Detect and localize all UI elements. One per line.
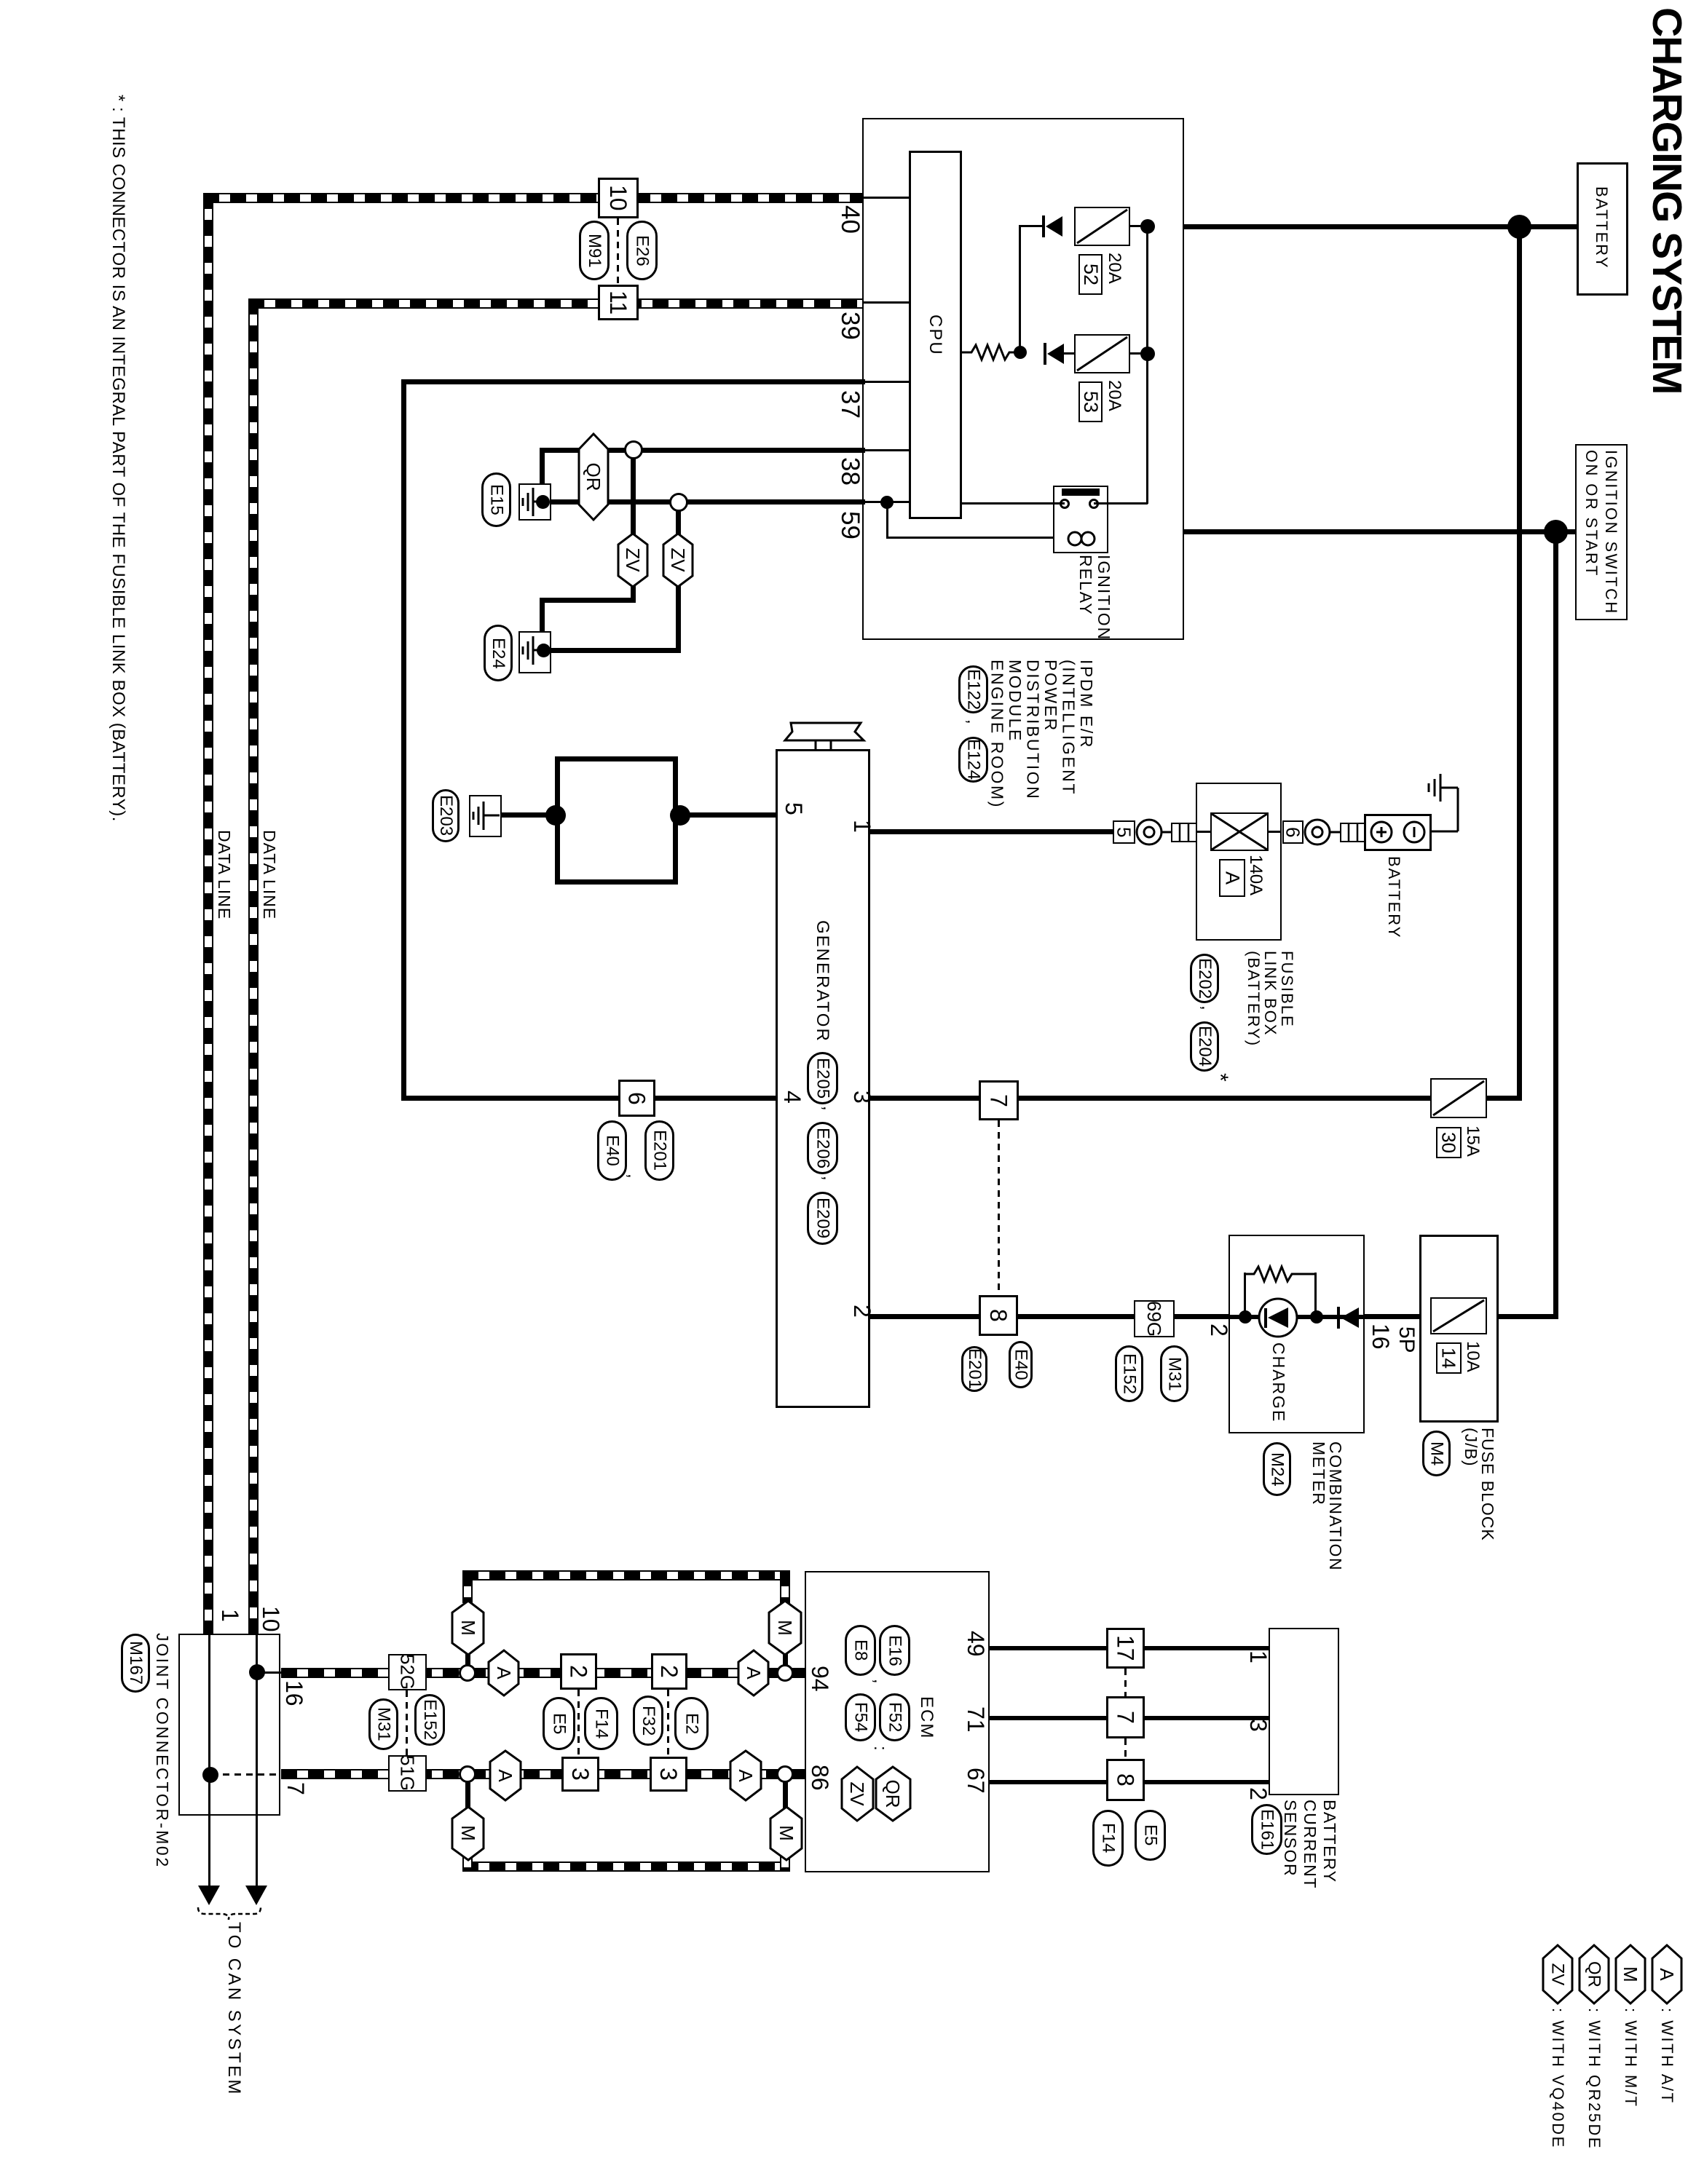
svg-text:A: A xyxy=(1656,1968,1678,1981)
svg-text:QR: QR xyxy=(1585,1961,1604,1987)
svg-text:ZV: ZV xyxy=(1548,1963,1568,1986)
svg-text:M: M xyxy=(1620,1966,1641,1982)
